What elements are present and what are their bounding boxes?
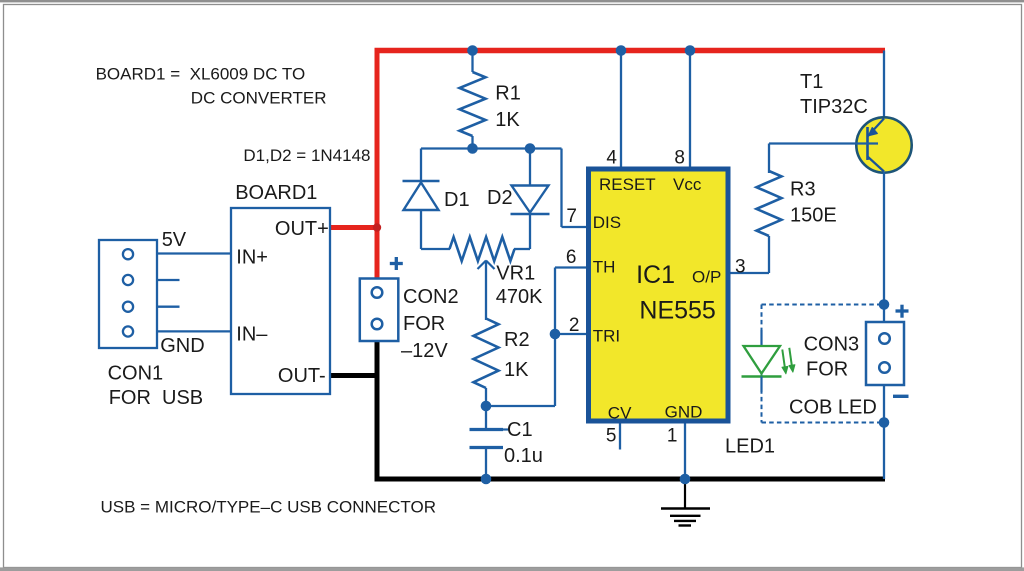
- svg-text:RESET: RESET: [599, 175, 656, 194]
- svg-text:VR1: VR1: [496, 262, 535, 284]
- svg-text:8: 8: [674, 148, 685, 169]
- svg-text:C1: C1: [507, 419, 533, 441]
- svg-text:TH: TH: [593, 258, 616, 277]
- svg-text:4: 4: [606, 148, 617, 169]
- svg-text:150E: 150E: [790, 205, 837, 227]
- svg-text:R3: R3: [790, 178, 816, 200]
- svg-text:D1,D2 = 1N4148: D1,D2 = 1N4148: [243, 146, 370, 165]
- svg-text:3: 3: [735, 257, 746, 278]
- svg-text:5V: 5V: [162, 229, 187, 251]
- svg-text:TIP32C: TIP32C: [800, 96, 868, 118]
- svg-text:1K: 1K: [495, 109, 520, 131]
- svg-text:IN+: IN+: [236, 246, 268, 268]
- svg-text:FOR USB: FOR USB: [109, 387, 203, 409]
- svg-text:5: 5: [606, 426, 617, 447]
- svg-text:7: 7: [566, 206, 577, 227]
- svg-text:CON1: CON1: [108, 363, 164, 385]
- svg-text:Vcc: Vcc: [673, 175, 702, 194]
- svg-text:GND: GND: [160, 335, 204, 357]
- svg-text:DC CONVERTER: DC CONVERTER: [191, 89, 327, 108]
- svg-text:O/P: O/P: [692, 268, 721, 287]
- svg-text:6: 6: [566, 247, 577, 268]
- svg-text:FOR: FOR: [806, 358, 848, 380]
- svg-text:COB LED: COB LED: [789, 397, 877, 419]
- svg-text:USB = MICRO/TYPE–C USB CONNECT: USB = MICRO/TYPE–C USB CONNECTOR: [101, 498, 437, 517]
- svg-text:IN–: IN–: [236, 324, 268, 346]
- svg-text:470K: 470K: [496, 286, 543, 308]
- svg-text:1K: 1K: [504, 359, 529, 381]
- svg-text:CV: CV: [608, 404, 632, 423]
- svg-text:D2: D2: [487, 187, 513, 209]
- svg-text:CON3: CON3: [804, 333, 860, 355]
- svg-text:TRI: TRI: [593, 327, 620, 346]
- svg-text:GND: GND: [665, 403, 703, 422]
- svg-text:R1: R1: [495, 82, 521, 104]
- svg-text:OUT-: OUT-: [278, 365, 326, 387]
- svg-text:D1: D1: [444, 189, 470, 211]
- svg-text:OUT+: OUT+: [275, 218, 329, 240]
- svg-text:BOARD1: BOARD1: [235, 182, 317, 204]
- svg-text:0.1u: 0.1u: [504, 445, 543, 467]
- svg-text:NE555: NE555: [639, 297, 715, 325]
- svg-text:CON2: CON2: [403, 286, 459, 308]
- svg-text:FOR: FOR: [403, 313, 445, 335]
- svg-text:T1: T1: [800, 71, 823, 93]
- svg-text:–12V: –12V: [401, 340, 448, 362]
- svg-text:IC1: IC1: [636, 261, 675, 289]
- svg-text:1: 1: [667, 426, 678, 447]
- svg-text:2: 2: [569, 315, 580, 336]
- svg-text:DIS: DIS: [593, 213, 621, 232]
- svg-text:R2: R2: [504, 329, 530, 351]
- svg-text:BOARD1 = XL6009 DC TO: BOARD1 = XL6009 DC TO: [96, 65, 306, 84]
- svg-text:LED1: LED1: [725, 436, 775, 458]
